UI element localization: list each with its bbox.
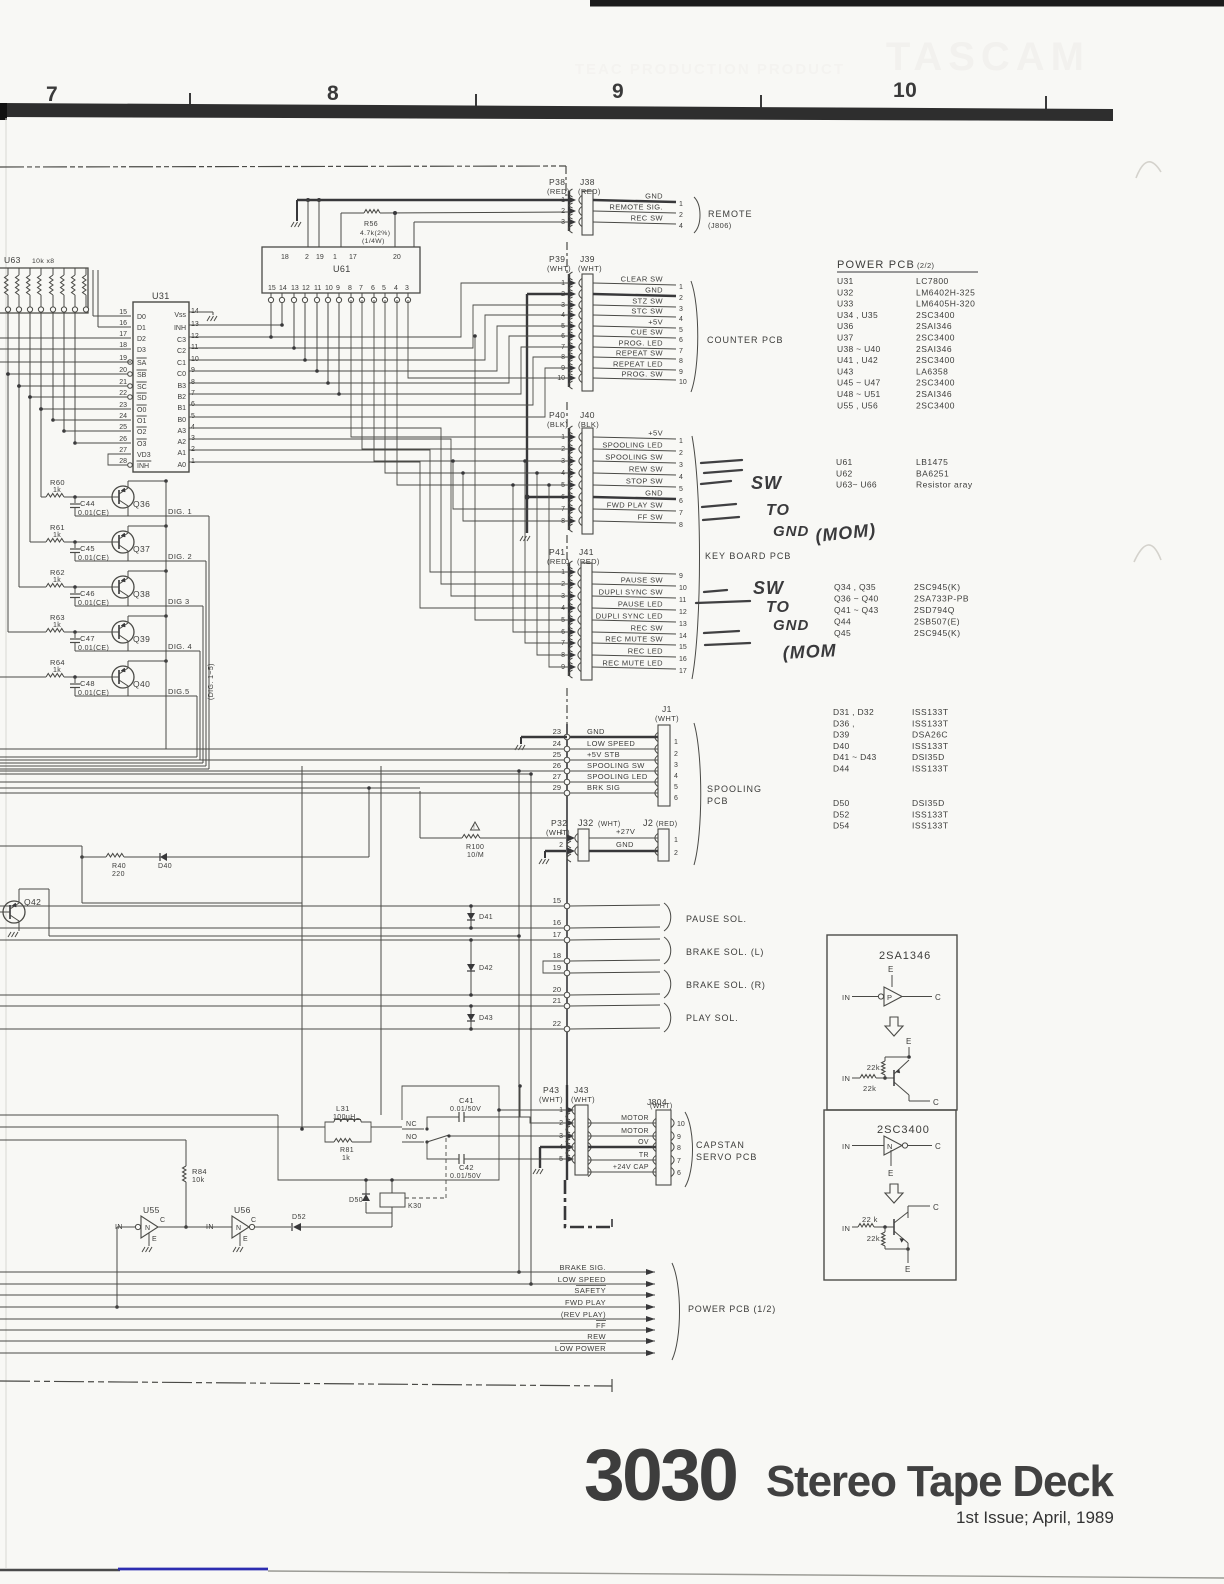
- svg-text:4: 4: [561, 470, 565, 477]
- wire signal LOW SPEED: [0, 1283, 655, 1285]
- resistor U63-3: [29, 268, 31, 275]
- ground at Q42: [8, 932, 18, 937]
- node punch-hole-arc-2: [1134, 545, 1161, 562]
- svg-text:(WHT): (WHT): [655, 714, 679, 723]
- connector J43 body: [575, 1105, 588, 1175]
- svg-text:D52: D52: [292, 1214, 306, 1221]
- svg-text:5: 5: [679, 486, 683, 493]
- resistor U63-7: [74, 268, 76, 275]
- resistor U63-8: [85, 268, 87, 275]
- wire J41 DUPLI SYNC SW (pin 11): [592, 596, 676, 598]
- svg-text:(WHT): (WHT): [571, 1095, 595, 1104]
- svg-text:P41: P41: [549, 547, 565, 557]
- svg-text:DIG 3: DIG 3: [168, 597, 190, 606]
- svg-text:GND: GND: [645, 489, 663, 498]
- svg-text:ISS133T: ISS133T: [912, 809, 949, 819]
- svg-text:1: 1: [679, 284, 683, 291]
- wire J39 PROG. SW (pin 10): [593, 378, 676, 380]
- svg-text:22k: 22k: [863, 1084, 876, 1093]
- svg-text:TR: TR: [639, 1152, 649, 1159]
- connector J804 body: [656, 1110, 671, 1185]
- svg-text:Q34 , Q35: Q34 , Q35: [834, 582, 876, 592]
- wire J39 PROG. LED (pin 7): [593, 347, 676, 349]
- wire DIG bus vertical 1: [208, 516, 210, 769]
- svg-text:CUE SW: CUE SW: [631, 328, 664, 337]
- wire vertical x381: [380, 766, 382, 1115]
- connector J41 body: [581, 563, 592, 680]
- svg-text:U43: U43: [837, 366, 854, 376]
- svg-text:E: E: [888, 965, 893, 974]
- wire U63 to U31 row: [64, 430, 113, 432]
- svg-text:U31: U31: [152, 291, 170, 301]
- svg-text:U36: U36: [837, 321, 854, 331]
- svg-text:O3: O3: [137, 441, 146, 448]
- svg-text:9: 9: [191, 367, 195, 374]
- svg-text:D39: D39: [833, 730, 850, 740]
- svg-text:6: 6: [561, 333, 565, 340]
- wire signal FF: [0, 1329, 655, 1331]
- svg-text:25: 25: [119, 424, 127, 431]
- wire R84 feed: [0, 1139, 186, 1141]
- svg-text:STC SW: STC SW: [631, 307, 663, 316]
- wire U55 input riser: [117, 1226, 127, 1228]
- wire signal LOW POWER: [0, 1352, 655, 1354]
- svg-text:17: 17: [679, 668, 687, 675]
- svg-text:D41: D41: [479, 914, 493, 921]
- svg-text:15: 15: [119, 309, 127, 316]
- wire signal FWD PLAY: [0, 1306, 655, 1308]
- svg-text:LM6402H-325: LM6402H-325: [916, 287, 975, 297]
- svg-text:FF SW: FF SW: [638, 513, 664, 522]
- svg-text:9: 9: [677, 1134, 681, 1141]
- svg-text:17: 17: [553, 930, 561, 939]
- transistor Q39: [112, 621, 134, 643]
- wire L31 main feeds: [0, 1114, 278, 1116]
- svg-text:U55: U55: [143, 1205, 160, 1215]
- svg-text:DUPLI SYNC LED: DUPLI SYNC LED: [596, 612, 663, 621]
- wire U31-C1 to J39-4: [189, 315, 569, 360]
- wire spine P43: [566, 1085, 568, 1180]
- svg-text:SC: SC: [137, 384, 147, 391]
- svg-text:U37: U37: [837, 333, 854, 343]
- svg-text:D44: D44: [833, 764, 850, 774]
- svg-text:1: 1: [561, 280, 565, 287]
- svg-text:+5V: +5V: [648, 429, 663, 438]
- svg-text:Q40: Q40: [133, 679, 150, 689]
- svg-text:BA6251: BA6251: [916, 468, 949, 478]
- svg-text:LC7800: LC7800: [916, 276, 949, 286]
- svg-text:4: 4: [674, 773, 678, 780]
- svg-text:C0: C0: [177, 371, 186, 378]
- svg-text:TO: TO: [766, 502, 790, 519]
- svg-text:U61: U61: [333, 264, 351, 274]
- wire solenoid left feed: [0, 905, 564, 907]
- wire spine thick dash-dot bottom: [565, 1180, 612, 1227]
- svg-text:(MOM: (MOM: [782, 640, 837, 663]
- svg-text:2: 2: [679, 450, 683, 457]
- wire P32 GND feed: [545, 850, 566, 852]
- svg-text:DIG. 2: DIG. 2: [168, 552, 192, 561]
- svg-text:D54: D54: [833, 821, 850, 831]
- svg-text:O0: O0: [137, 407, 146, 414]
- node mesh junction dots: [451, 459, 455, 463]
- wire U63 to U31 row: [53, 419, 113, 421]
- svg-text:0.01/50V: 0.01/50V: [450, 1106, 481, 1113]
- svg-text:TEAC PRODUCTION PRODUCT: TEAC PRODUCTION PRODUCT: [575, 61, 845, 78]
- svg-text:C2: C2: [177, 348, 186, 355]
- svg-text:+27V: +27V: [616, 827, 635, 836]
- wire J38 GND (pin 1): [593, 200, 676, 202]
- wire U61 pin drop: [316, 303, 318, 371]
- svg-text:2SAI346: 2SAI346: [916, 389, 952, 399]
- transistor Q36: [112, 486, 134, 508]
- svg-text:2SAI346: 2SAI346: [916, 344, 952, 354]
- wire U63 output: [52, 312, 54, 420]
- capacitor C48: [73, 675, 77, 679]
- svg-text:CLEAR SW: CLEAR SW: [621, 275, 664, 284]
- wire base feed R64: [0, 676, 46, 678]
- svg-text:C41: C41: [459, 1096, 474, 1105]
- svg-text:C47: C47: [80, 634, 95, 643]
- wire J43 to J804 OV (pin 8): [588, 1142, 591, 1151]
- svg-text:C: C: [160, 1217, 165, 1224]
- node bracket BRAKE SOL R: [664, 970, 671, 998]
- svg-text:CAPSTAN: CAPSTAN: [696, 1140, 745, 1150]
- svg-text:11: 11: [679, 597, 686, 604]
- svg-text:6: 6: [561, 629, 565, 636]
- svg-text:(DIG. 1~5): (DIG. 1~5): [208, 663, 215, 700]
- svg-text:SERVO PCB: SERVO PCB: [696, 1152, 757, 1162]
- svg-text:SD: SD: [137, 395, 147, 402]
- svg-text:NO: NO: [406, 1134, 417, 1141]
- svg-text:INH: INH: [137, 463, 149, 470]
- wire dash-dot bottom boundary: [0, 1381, 612, 1386]
- wire P43 pin 4 ground thick: [540, 1146, 566, 1148]
- svg-text:REPEAT SW: REPEAT SW: [616, 349, 664, 358]
- svg-text:B0: B0: [177, 417, 186, 424]
- svg-text:U62: U62: [836, 468, 853, 478]
- wire Q36 emitter / DIG. 1: [127, 506, 129, 516]
- svg-text:9: 9: [679, 369, 683, 376]
- svg-text:D40: D40: [158, 863, 172, 870]
- svg-text:A2: A2: [177, 439, 186, 446]
- svg-text:U48 ~ U51: U48 ~ U51: [837, 389, 881, 399]
- wire switch common to P43 pin3: [449, 1135, 566, 1137]
- svg-text:4: 4: [679, 474, 683, 481]
- svg-text:REC SW: REC SW: [631, 214, 664, 223]
- svg-text:3: 3: [561, 593, 565, 600]
- svg-text:5: 5: [674, 784, 678, 791]
- node block arrow 2: [885, 1184, 903, 1203]
- svg-text:REW SW: REW SW: [629, 465, 664, 474]
- svg-text:6: 6: [191, 401, 195, 408]
- svg-text:Q41 ~ Q43: Q41 ~ Q43: [834, 605, 879, 615]
- svg-text:Q39: Q39: [133, 634, 150, 644]
- svg-text:6: 6: [371, 285, 375, 292]
- wire J43 to J804 TR (pin 7): [588, 1155, 591, 1164]
- svg-text:1: 1: [333, 254, 337, 261]
- wire Q40 emitter / DIG.5: [127, 686, 129, 696]
- svg-text:1: 1: [679, 201, 683, 208]
- wire Q42 branch down: [81, 857, 83, 903]
- wire J40 GND (pin 6): [593, 497, 676, 499]
- svg-text:22: 22: [119, 390, 127, 397]
- svg-text:U45 ~ U47: U45 ~ U47: [837, 378, 881, 388]
- node ruler-tick-4: [1045, 96, 1047, 113]
- wire pins 18-19 link: [543, 961, 564, 973]
- svg-text:REMOTE SIG.: REMOTE SIG.: [609, 203, 663, 212]
- wire D40 riser: [368, 788, 370, 857]
- svg-text:20: 20: [119, 367, 127, 374]
- wire U63 output: [18, 312, 20, 386]
- svg-text:11: 11: [191, 344, 198, 351]
- svg-text:3: 3: [405, 285, 409, 292]
- svg-text:REPEAT LED: REPEAT LED: [613, 360, 663, 369]
- wire GND net thick vertical: [526, 294, 528, 533]
- svg-text:FF: FF: [596, 1321, 606, 1330]
- svg-text:SA: SA: [137, 360, 147, 367]
- svg-text:R60: R60: [50, 478, 65, 487]
- svg-text:4: 4: [561, 312, 565, 319]
- svg-text:B3: B3: [177, 383, 186, 390]
- svg-text:L31: L31: [336, 1104, 350, 1113]
- resistor R84: [185, 1140, 187, 1166]
- svg-text:3: 3: [679, 462, 683, 469]
- node ruler-tick-2: [475, 94, 477, 111]
- wire solenoid left feed: [0, 1028, 564, 1030]
- svg-text:21: 21: [553, 996, 561, 1005]
- svg-text:U32: U32: [837, 287, 854, 297]
- wire U31-A0 to J41-4: [189, 462, 569, 608]
- connector P39 spine: [568, 274, 570, 387]
- svg-text:2: 2: [674, 751, 678, 758]
- svg-text:10: 10: [677, 1121, 685, 1128]
- wire Q37 emitter / DIG. 2: [127, 551, 129, 561]
- node bracket POWER PCB 1/2: [672, 1263, 680, 1360]
- svg-text:(WHT): (WHT): [578, 264, 602, 273]
- svg-text:PCB: PCB: [707, 796, 729, 806]
- svg-text:PAUSE SW: PAUSE SW: [621, 576, 664, 585]
- svg-text:2SC3400: 2SC3400: [916, 310, 955, 320]
- wire feeder to J40-8: [463, 473, 569, 521]
- svg-text:D41 ~ D43: D41 ~ D43: [833, 752, 877, 762]
- svg-text:Q45: Q45: [834, 628, 851, 638]
- svg-text:10k: 10k: [192, 1177, 205, 1184]
- svg-text:23: 23: [119, 402, 127, 409]
- svg-text:1: 1: [674, 837, 678, 844]
- svg-text:A3: A3: [177, 428, 186, 435]
- wire J41 REC MUTE LED (pin 17): [592, 667, 676, 669]
- svg-text:18: 18: [553, 951, 561, 960]
- svg-text:17: 17: [119, 331, 127, 338]
- capacitor C44: [73, 495, 77, 499]
- wire Q39 emitter / DIG. 4: [127, 641, 129, 651]
- svg-text:R81: R81: [340, 1147, 354, 1154]
- node bracket COUNTER PCB: [691, 281, 698, 392]
- svg-text:2SA1346: 2SA1346: [879, 950, 931, 962]
- svg-text:22k: 22k: [867, 1234, 880, 1243]
- node junction U61-pin19 riser: [317, 198, 321, 202]
- connector J2 body: [658, 829, 669, 861]
- wire J40 STOP SW (pin 5): [593, 485, 676, 487]
- wire J39 STC SW (pin 4): [593, 315, 676, 317]
- wire J39 +5V (pin 5): [593, 326, 676, 328]
- svg-text:22 k: 22 k: [862, 1215, 878, 1224]
- svg-text:C48: C48: [80, 679, 95, 688]
- svg-text:D31 , D32: D31 , D32: [833, 707, 874, 717]
- svg-text:Vss: Vss: [174, 312, 186, 319]
- wire J1 feed row 24: [0, 748, 564, 750]
- wire P38 pin1 GND feed: [297, 199, 569, 201]
- svg-text:REW: REW: [587, 1332, 606, 1341]
- svg-text:U34 , U35: U34 , U35: [837, 310, 878, 320]
- svg-text:IN: IN: [842, 1224, 850, 1233]
- svg-text:29: 29: [553, 783, 561, 792]
- wire spine pins 15-22: [566, 868, 568, 1085]
- svg-text:D2: D2: [137, 336, 146, 343]
- wire U63 output: [74, 312, 76, 443]
- svg-text:BRK SIG: BRK SIG: [587, 783, 620, 792]
- wire P43 pin1 feed: [499, 1109, 566, 1111]
- svg-text:REC LED: REC LED: [628, 647, 663, 656]
- wire spine dash-dot between J40 and J41: [566, 535, 568, 564]
- svg-text:9: 9: [612, 80, 624, 103]
- wire into U31 D2 from left: [0, 337, 131, 339]
- wire U63 output: [7, 312, 9, 374]
- connector J1 body: [658, 725, 670, 806]
- svg-text:ISS133T: ISS133T: [912, 707, 949, 717]
- svg-text:10: 10: [325, 285, 333, 292]
- svg-text:REC SW: REC SW: [631, 624, 664, 633]
- svg-text:(WHT): (WHT): [650, 1103, 673, 1110]
- transistor Q38: [112, 576, 134, 598]
- svg-text:Q37: Q37: [133, 544, 150, 554]
- ground at GND net: [520, 536, 530, 541]
- resistor array U63 body: [0, 268, 88, 313]
- svg-text:U38 ~ U40: U38 ~ U40: [837, 344, 881, 354]
- wire U63 to U31 row: [8, 373, 113, 375]
- svg-text:(J806): (J806): [708, 221, 732, 230]
- ground at P38 GND feed: [296, 200, 298, 221]
- svg-text:3: 3: [674, 762, 678, 769]
- svg-text:7: 7: [46, 83, 58, 106]
- wire K30 dashed link: [405, 1197, 446, 1199]
- svg-text:FWD PLAY: FWD PLAY: [565, 1298, 606, 1307]
- wire U31 INH13: [189, 324, 282, 326]
- svg-text:13: 13: [291, 285, 299, 292]
- svg-text:8: 8: [679, 358, 683, 365]
- svg-text:(REV PLAY): (REV PLAY): [561, 1310, 606, 1319]
- wire U61-5 to J40-4: [385, 300, 569, 473]
- svg-text:10: 10: [893, 79, 917, 102]
- svg-text:U55 , U56: U55 , U56: [837, 400, 878, 410]
- svg-text:24: 24: [553, 739, 561, 748]
- svg-text:U63~ U66: U63~ U66: [836, 480, 877, 490]
- svg-text:7: 7: [191, 390, 195, 397]
- svg-text:9: 9: [561, 365, 565, 372]
- svg-text:220: 220: [112, 871, 125, 878]
- svg-text:Q44: Q44: [834, 617, 851, 627]
- wire Q42 base: [0, 911, 3, 913]
- svg-text:7: 7: [677, 1158, 681, 1165]
- svg-text:SPOOLING SW: SPOOLING SW: [587, 761, 645, 770]
- svg-text:ISS133T: ISS133T: [912, 764, 949, 774]
- svg-text:U33: U33: [837, 299, 854, 309]
- svg-text:7: 7: [561, 344, 565, 351]
- svg-text:DSA26C: DSA26C: [912, 730, 948, 740]
- wire DIG bus vertical 2: [205, 561, 207, 766]
- svg-text:2SC3400: 2SC3400: [916, 333, 955, 343]
- ground at J1 GND: [515, 745, 525, 750]
- wire U63 to U31 row: [41, 408, 113, 410]
- svg-text:NC: NC: [406, 1121, 417, 1128]
- node ruler-tick-1: [189, 93, 191, 110]
- node bottom page edge: [0, 1569, 120, 1572]
- svg-text:20: 20: [553, 985, 561, 994]
- svg-text:26: 26: [553, 761, 561, 770]
- svg-text:10/M: 10/M: [467, 852, 484, 859]
- svg-text:10: 10: [679, 585, 687, 592]
- svg-text:3: 3: [191, 435, 195, 442]
- svg-text:2SD794Q: 2SD794Q: [914, 605, 955, 615]
- svg-text:(WHT): (WHT): [539, 1095, 563, 1104]
- wire base feed R63: [7, 374, 9, 632]
- node page-left-edge: [5, 118, 7, 1568]
- svg-text:REC MUTE LED: REC MUTE LED: [602, 659, 663, 668]
- wire feeder to J40-7: [453, 461, 569, 509]
- svg-text:C44: C44: [80, 499, 95, 508]
- wire J41 pin 9: [592, 572, 676, 574]
- resistor R100 with warning: [471, 822, 480, 830]
- svg-text:2: 2: [559, 842, 563, 849]
- wire into U31 D3 from left: [0, 348, 131, 350]
- wire R40 branch: [0, 845, 82, 847]
- svg-text:REMOTE: REMOTE: [708, 209, 753, 219]
- wire J39 CUE SW (pin 6): [593, 336, 676, 338]
- svg-text:2: 2: [674, 850, 678, 857]
- svg-text:(2/2): (2/2): [917, 261, 935, 270]
- diode D43: [470, 1006, 472, 1029]
- resistor U63-6: [63, 268, 65, 275]
- svg-text:R62: R62: [50, 568, 65, 577]
- svg-text:D42: D42: [479, 965, 493, 972]
- connector J39 body: [582, 274, 593, 391]
- svg-text:DIG. 4: DIG. 4: [168, 642, 192, 651]
- svg-text:SPOOLING SW: SPOOLING SW: [605, 453, 663, 462]
- svg-text:C: C: [251, 1217, 256, 1224]
- svg-text:P: P: [887, 993, 892, 1002]
- svg-text:P32: P32: [551, 818, 567, 828]
- diode D41: [470, 906, 472, 928]
- svg-text:LA6358: LA6358: [916, 366, 948, 376]
- svg-text:IN: IN: [842, 1142, 850, 1151]
- svg-text:MOTOR: MOTOR: [621, 1115, 649, 1122]
- svg-text:ISS133T: ISS133T: [912, 741, 949, 751]
- svg-text:TASCAM: TASCAM: [886, 35, 1090, 79]
- wire vertical x531: [530, 774, 532, 1284]
- svg-text:O1: O1: [137, 418, 146, 425]
- svg-text:R63: R63: [50, 613, 65, 622]
- svg-text:9: 9: [561, 664, 565, 671]
- svg-text:4: 4: [394, 285, 398, 292]
- svg-text:11: 11: [314, 285, 321, 292]
- wire vertical x302: [301, 766, 303, 1129]
- capacitor C46: [73, 585, 77, 589]
- svg-text:26: 26: [119, 436, 127, 443]
- wire into U31 D0 riser: [93, 315, 131, 317]
- wire J39 CLEAR SW (pin 1): [593, 283, 676, 285]
- svg-text:2: 2: [305, 254, 309, 261]
